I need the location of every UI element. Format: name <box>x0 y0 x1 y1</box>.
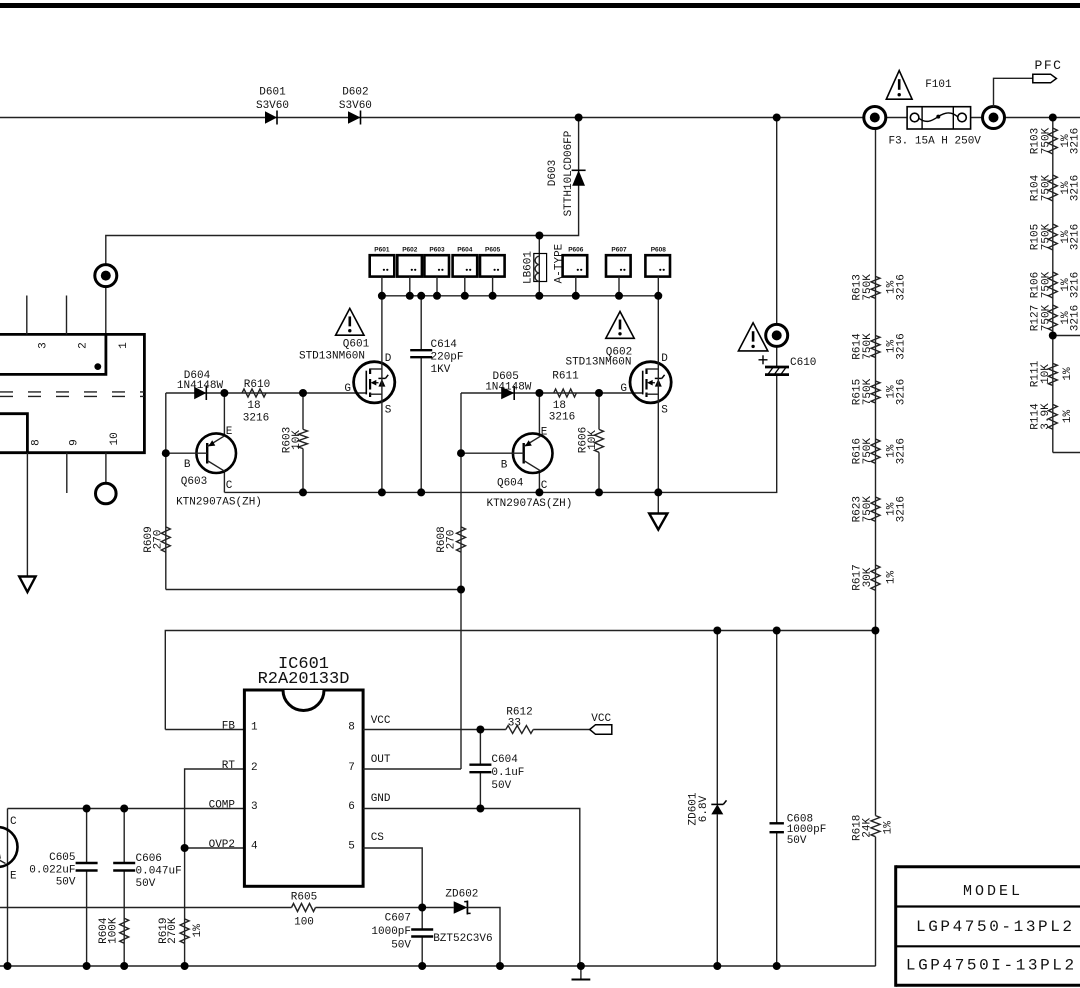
junction (776.7,630.5) <box>773 627 781 635</box>
svg-text:C610: C610 <box>790 357 816 369</box>
connector P603 <box>424 247 449 296</box>
junction (500,966) <box>496 962 504 970</box>
capacitor C604 <box>469 730 524 809</box>
svg-text:3216: 3216 <box>549 411 575 423</box>
ground at Q602 source <box>649 514 667 530</box>
junction (7.5,966) <box>4 962 12 970</box>
svg-text:STTH10LCD06FP: STTH10LCD06FP <box>563 130 575 216</box>
svg-text:3.9K: 3.9K <box>1040 403 1052 430</box>
svg-text:C614: C614 <box>431 339 458 351</box>
mosfet Q602 <box>565 347 671 417</box>
svg-text:50V: 50V <box>136 878 156 890</box>
svg-text:270: 270 <box>152 530 164 550</box>
wire transformer pin 3 stub <box>26 296 28 335</box>
wire transformer pin 2 stub <box>66 296 68 335</box>
wire VCC pin lead <box>363 729 506 731</box>
capacitor C605 <box>29 809 97 967</box>
resistor R104 <box>1029 174 1080 201</box>
junction (461,589.5) <box>457 586 465 594</box>
svg-text:50V: 50V <box>787 835 807 847</box>
wire R606 vertical <box>598 393 600 429</box>
resistor R127 <box>1029 304 1080 331</box>
connector P604 <box>453 247 478 296</box>
zener diode ZD601 <box>687 631 726 967</box>
resistor R611 <box>549 371 579 424</box>
svg-text:750K: 750K <box>1040 127 1052 154</box>
svg-text:MODEL: MODEL <box>963 883 1023 900</box>
svg-text:1N4148W: 1N4148W <box>177 380 224 392</box>
resistor R603 <box>281 427 307 453</box>
junction (124.2,808.5) <box>120 805 128 813</box>
svg-text:ZD602: ZD602 <box>445 888 478 900</box>
wire gate drive left y=393 <box>166 392 366 394</box>
svg-text:2: 2 <box>77 342 89 349</box>
wire R612 to VCC flag <box>533 729 590 731</box>
wire connector bus y=295.8 <box>382 295 658 297</box>
resistor R610 <box>242 379 270 425</box>
connector P605 <box>480 247 505 296</box>
transistor Q603 <box>166 426 262 508</box>
resistor R623 <box>851 496 907 523</box>
svg-text:5: 5 <box>348 840 355 852</box>
svg-text:P605: P605 <box>485 247 501 254</box>
svg-text:G: G <box>620 383 627 395</box>
svg-text:D: D <box>385 353 392 365</box>
wire test-point branch y=235.5 <box>106 236 540 335</box>
wire Q602 drain-source vertical <box>657 296 659 493</box>
svg-text:30K: 30K <box>862 567 874 587</box>
wire gate drive right y=393 <box>461 392 643 394</box>
junction (421.2,492.4) <box>417 488 425 496</box>
junction (480.4,808.5) <box>476 805 484 813</box>
wire FB bus y=630.5 <box>165 631 875 730</box>
junction (224.4,393) <box>220 389 228 397</box>
svg-text:3216: 3216 <box>895 438 907 464</box>
junction (165.8,453.2) <box>162 449 170 457</box>
wire transformer pin 9 stub <box>66 453 68 493</box>
junction (461,453.2) <box>457 449 465 457</box>
svg-text:270: 270 <box>445 530 457 550</box>
junction (421.2,295.8) <box>417 292 425 300</box>
svg-text:R605: R605 <box>291 891 317 903</box>
wire R619 vertical <box>184 848 186 966</box>
svg-text:S: S <box>385 404 392 416</box>
junction (575.8,295.8) <box>572 292 580 300</box>
svg-text:100K: 100K <box>107 917 119 944</box>
test point TP3 at C610 <box>766 324 788 346</box>
svg-text:LGP4750I-13PL2: LGP4750I-13PL2 <box>906 957 1077 975</box>
svg-text:GND: GND <box>371 793 391 805</box>
junction (303,393) <box>299 389 307 397</box>
diode D601 <box>256 87 289 125</box>
capacitor C610 (polarized) <box>759 355 817 374</box>
wire Q603 collector stub <box>223 472 225 493</box>
svg-text:D: D <box>661 353 668 365</box>
wire PFC branch <box>994 78 1033 107</box>
svg-text:C: C <box>226 480 233 492</box>
svg-text:PFC: PFC <box>1035 58 1063 73</box>
wire source/collector rail y=492.4 <box>224 375 776 493</box>
svg-text:1KV: 1KV <box>431 364 451 376</box>
wire base rail left x=165.8 <box>165 393 167 590</box>
resistor R111 <box>1029 360 1074 387</box>
svg-text:P606: P606 <box>568 247 584 254</box>
svg-text:3: 3 <box>251 801 258 813</box>
test point TP5 right of fuse <box>983 107 1005 129</box>
junction (658.3,295.8) <box>654 292 662 300</box>
resistor R604 <box>98 917 129 944</box>
wire D603 branch vertical <box>539 118 578 236</box>
junction (580.9,966) <box>577 962 585 970</box>
wire CS pin lead <box>363 848 422 908</box>
svg-text:3216: 3216 <box>1069 175 1080 201</box>
wire Q604 emitter stub <box>538 393 540 436</box>
svg-text:P607: P607 <box>611 247 627 254</box>
svg-text:P602: P602 <box>402 247 418 254</box>
wire R605 rail y=907.5 <box>0 907 292 909</box>
warning triangle C610 <box>738 323 767 351</box>
junction (124.2,966) <box>120 962 128 970</box>
svg-text:3216: 3216 <box>1069 128 1080 154</box>
svg-text:D603: D603 <box>547 160 559 186</box>
svg-text:STD13NM60N: STD13NM60N <box>565 357 631 369</box>
wire R603 vertical <box>302 393 304 429</box>
junction (184.6,848) <box>181 844 189 852</box>
connector P607 <box>606 247 631 296</box>
wire left transistor vertical <box>7 809 9 967</box>
resistor R106 <box>1029 271 1080 298</box>
fuse F101 <box>888 79 981 147</box>
resistor R103 <box>1029 127 1080 154</box>
svg-text:G: G <box>344 383 351 395</box>
svg-text:10: 10 <box>109 432 121 445</box>
resistor R613 <box>851 274 907 301</box>
svg-text:750K: 750K <box>1040 304 1052 331</box>
net flag VCC <box>590 713 612 734</box>
svg-text:6: 6 <box>348 801 355 813</box>
warning triangle F101 <box>886 71 912 100</box>
svg-text:F101: F101 <box>925 79 952 91</box>
svg-text:9: 9 <box>68 439 80 446</box>
junction (599,492.4) <box>595 488 603 496</box>
svg-text:1000pF: 1000pF <box>371 926 411 938</box>
test point TP1 on transformer pin 1 <box>95 265 117 287</box>
ground stub bottom <box>580 966 582 980</box>
svg-text:COMP: COMP <box>209 799 236 811</box>
wire R613 chain x=875.5 <box>875 118 877 631</box>
transformer polarity dot <box>94 363 101 370</box>
svg-text:0.047uF: 0.047uF <box>136 866 182 878</box>
svg-text:0.022uF: 0.022uF <box>29 864 75 876</box>
test point TP4 near fuse <box>864 107 886 129</box>
resistor R612 <box>506 706 533 733</box>
wire Q603 emitter stub <box>223 393 225 436</box>
wire transformer pin 10 stub <box>105 453 107 484</box>
svg-text:OUT: OUT <box>371 754 391 766</box>
svg-text:S3V60: S3V60 <box>339 100 372 112</box>
svg-text:750K: 750K <box>862 438 874 465</box>
junction (717.3,966) <box>713 962 721 970</box>
junction (184.6,966) <box>181 962 189 970</box>
svg-text:7: 7 <box>348 762 355 774</box>
svg-text:24K: 24K <box>861 818 873 838</box>
svg-text:C: C <box>10 816 17 828</box>
junction (422.2,907.5) <box>418 904 426 912</box>
junction (619.0,295.8) <box>615 292 623 300</box>
svg-text:8: 8 <box>348 722 355 734</box>
junction (1052.8,117.5) <box>1049 114 1057 122</box>
svg-text:3216: 3216 <box>895 274 907 300</box>
svg-text:8: 8 <box>31 439 43 446</box>
svg-text:OVP2: OVP2 <box>209 839 235 851</box>
diode D603 <box>547 130 586 216</box>
wire C610 vertical <box>776 118 778 368</box>
svg-text:B: B <box>184 459 191 471</box>
svg-text:1%: 1% <box>192 924 204 938</box>
resistor R615 <box>851 378 907 405</box>
connector P608 <box>645 247 670 296</box>
junction (422.2,966) <box>418 962 426 970</box>
wire Q601 drain-source vertical <box>381 296 383 493</box>
svg-text:FB: FB <box>222 720 236 732</box>
svg-text:3216: 3216 <box>895 333 907 359</box>
wire R103 chain x=1052.8 <box>1052 118 1054 453</box>
warning triangle Q601 <box>336 308 364 335</box>
svg-text:1%: 1% <box>883 821 895 835</box>
svg-text:Q601: Q601 <box>343 338 370 350</box>
wire OUT drive rail y=589.5 <box>166 589 461 591</box>
svg-text:270K: 270K <box>167 917 179 944</box>
resistor R616 <box>851 438 907 465</box>
resistor R619 <box>158 917 204 944</box>
svg-text:B: B <box>501 460 508 472</box>
svg-text:1N4148W: 1N4148W <box>485 382 532 394</box>
svg-text:1: 1 <box>118 342 130 349</box>
wire branch divider bottom <box>1053 452 1080 454</box>
wire COMP lead y=808.5 <box>8 808 245 810</box>
wire RT pin lead <box>185 769 245 848</box>
svg-text:3216: 3216 <box>1069 272 1080 298</box>
junction (492.6,295.8) <box>489 292 497 300</box>
svg-text:R611: R611 <box>552 371 579 383</box>
svg-text:P604: P604 <box>457 247 473 254</box>
wire ZD602 to ground <box>467 908 500 967</box>
junction (86.6,966) <box>83 962 91 970</box>
svg-text:18: 18 <box>553 400 566 412</box>
junction (599,393) <box>595 389 603 397</box>
wire Q604 collector stub <box>538 471 540 493</box>
diode D604 <box>177 370 224 400</box>
wire ground bus y=966 <box>0 965 876 967</box>
resistor R617 <box>851 564 897 590</box>
mosfet Q601 <box>299 338 395 416</box>
svg-text:3216: 3216 <box>243 413 269 425</box>
table MODEL <box>896 865 1080 987</box>
resistor R618 <box>851 631 894 967</box>
svg-text:10K: 10K <box>587 430 599 450</box>
junction (578.6,117.5) <box>575 114 583 122</box>
svg-text:KTN2907AS(ZH): KTN2907AS(ZH) <box>486 498 572 510</box>
wire FB pin lead <box>165 729 244 731</box>
svg-text:1: 1 <box>251 722 258 734</box>
wire OVP2 pin lead <box>185 847 245 849</box>
wire base rail right x=461 <box>460 393 462 590</box>
op-amp/controller IC601 R2A20133D <box>209 655 391 886</box>
svg-text:750K: 750K <box>862 274 874 301</box>
top border bar <box>0 3 1080 8</box>
connector P601 <box>370 247 395 296</box>
wire LB601 vertical <box>538 236 540 296</box>
svg-text:E: E <box>10 871 17 883</box>
svg-text:6.8V: 6.8V <box>698 795 710 822</box>
diode D605 <box>485 371 532 400</box>
svg-text:18: 18 <box>247 400 260 412</box>
wire Q602 source to ground stub <box>657 492 659 513</box>
svg-text:D601: D601 <box>259 87 286 99</box>
junction (776.7,117.5) <box>773 114 781 122</box>
svg-text:4: 4 <box>251 840 258 852</box>
svg-text:E: E <box>541 426 548 438</box>
diode D602 <box>339 87 372 125</box>
svg-text:S3V60: S3V60 <box>256 100 289 112</box>
svg-text:750K: 750K <box>862 378 874 405</box>
svg-text:220pF: 220pF <box>431 352 464 364</box>
svg-text:P608: P608 <box>651 247 667 254</box>
svg-text:10K: 10K <box>291 430 303 450</box>
connector P606 <box>563 247 588 296</box>
test point TP2 on transformer pin 10 <box>96 483 117 504</box>
svg-text:LGP4750-13PL2: LGP4750-13PL2 <box>916 918 1075 936</box>
svg-text:VCC: VCC <box>371 715 391 727</box>
svg-text:E: E <box>226 426 233 438</box>
junction (658.3,492.4) <box>654 488 662 496</box>
junction (539.4,492.4) <box>535 488 543 496</box>
svg-text:50V: 50V <box>56 877 76 889</box>
svg-text:Q604: Q604 <box>497 477 524 489</box>
warning triangle Q602 <box>606 312 634 339</box>
svg-text:C607: C607 <box>385 913 411 925</box>
junction (1052.8,335.5) <box>1049 332 1057 340</box>
inductor LB601 <box>522 243 565 284</box>
junction (303,492.4) <box>299 488 307 496</box>
svg-text:F3. 15A H 250V: F3. 15A H 250V <box>888 135 981 147</box>
svg-text:3216: 3216 <box>1069 305 1080 331</box>
wire main AC rail y=117.5 <box>0 117 907 119</box>
svg-text:R2A20133D: R2A20133D <box>258 670 350 689</box>
resistor R114 <box>1029 403 1074 430</box>
junction (717.3,630.5) <box>713 627 721 635</box>
connector P602 <box>397 247 422 296</box>
wire branch PFC divider mid <box>1053 335 1080 337</box>
svg-text:S: S <box>661 404 668 416</box>
svg-text:750K: 750K <box>1040 174 1052 201</box>
svg-text:750K: 750K <box>1040 223 1052 250</box>
svg-text:3: 3 <box>38 342 50 349</box>
capacitor C607 <box>371 908 433 967</box>
junction (381.9,492.4) <box>378 488 386 496</box>
junction (381.9,295.8) <box>378 292 386 300</box>
svg-text:Q603: Q603 <box>181 476 207 488</box>
svg-text:3216: 3216 <box>1069 224 1080 250</box>
wire transformer pin 8 to ground <box>26 453 28 577</box>
junction (480.4,729.5) <box>476 726 484 734</box>
svg-text:750K: 750K <box>1040 271 1052 298</box>
svg-text:VCC: VCC <box>591 713 611 725</box>
svg-text:P601: P601 <box>374 247 390 254</box>
resistor R608 <box>436 526 466 552</box>
resistor R614 <box>851 333 907 360</box>
resistor R609 <box>143 526 171 552</box>
svg-text:C605: C605 <box>49 852 75 864</box>
svg-text:3216: 3216 <box>895 379 907 405</box>
ground for transformer pin 8 <box>19 577 35 593</box>
wire OUT vertical x=461 <box>460 590 462 770</box>
svg-text:750K: 750K <box>862 333 874 360</box>
svg-text:10K: 10K <box>1040 364 1052 384</box>
svg-text:33: 33 <box>508 717 521 729</box>
net flag PFC <box>1033 58 1063 83</box>
capacitor C614 <box>410 296 463 493</box>
svg-text:2: 2 <box>251 762 258 774</box>
junction (409.8,295.8) <box>406 292 414 300</box>
junction (875.4,630.5) <box>871 627 879 635</box>
junction (539.4,235.5) <box>535 232 543 240</box>
svg-text:CS: CS <box>371 832 385 844</box>
resistor R105 <box>1029 223 1080 250</box>
junction (539.4,393) <box>535 389 543 397</box>
capacitor C608 <box>770 631 827 967</box>
svg-text:1%: 1% <box>885 571 897 585</box>
svg-text:0.1uF: 0.1uF <box>491 767 524 779</box>
svg-text:50V: 50V <box>391 940 411 952</box>
junction (539.3,295.8) <box>535 292 543 300</box>
svg-text:LB601: LB601 <box>522 251 534 284</box>
transistor Q(left edge, partial) <box>0 816 18 883</box>
transistor Q604 <box>461 426 572 510</box>
svg-text:KTN2907AS(ZH): KTN2907AS(ZH) <box>176 496 262 508</box>
transformer T (pins 1-3, 8-10) <box>0 334 144 452</box>
svg-text:C606: C606 <box>136 853 162 865</box>
resistor R605 <box>291 891 317 928</box>
svg-text:C604: C604 <box>491 754 518 766</box>
svg-text:BZT52C3V6: BZT52C3V6 <box>433 933 492 945</box>
junction (86.6,808.5) <box>83 805 91 813</box>
svg-text:P603: P603 <box>429 247 445 254</box>
svg-text:100: 100 <box>294 916 314 928</box>
junction (437.0,295.8) <box>433 292 441 300</box>
svg-text:RT: RT <box>222 760 236 772</box>
svg-text:50V: 50V <box>491 780 511 792</box>
junction (464.8,295.8) <box>461 292 469 300</box>
zener diode ZD602 <box>433 888 492 945</box>
svg-text:1%: 1% <box>1062 410 1074 424</box>
svg-text:3216: 3216 <box>895 496 907 522</box>
svg-text:R610: R610 <box>244 379 270 391</box>
svg-text:750K: 750K <box>862 496 874 523</box>
junction (776.7,966) <box>773 962 781 970</box>
wire OUT pin lead <box>363 768 461 770</box>
capacitor C606 <box>113 809 182 967</box>
wire GND pin lead <box>363 809 580 967</box>
svg-text:STD13NM60N: STD13NM60N <box>299 350 365 362</box>
resistor R606 <box>577 427 603 453</box>
svg-text:D602: D602 <box>342 87 368 99</box>
svg-text:1%: 1% <box>1062 367 1074 381</box>
